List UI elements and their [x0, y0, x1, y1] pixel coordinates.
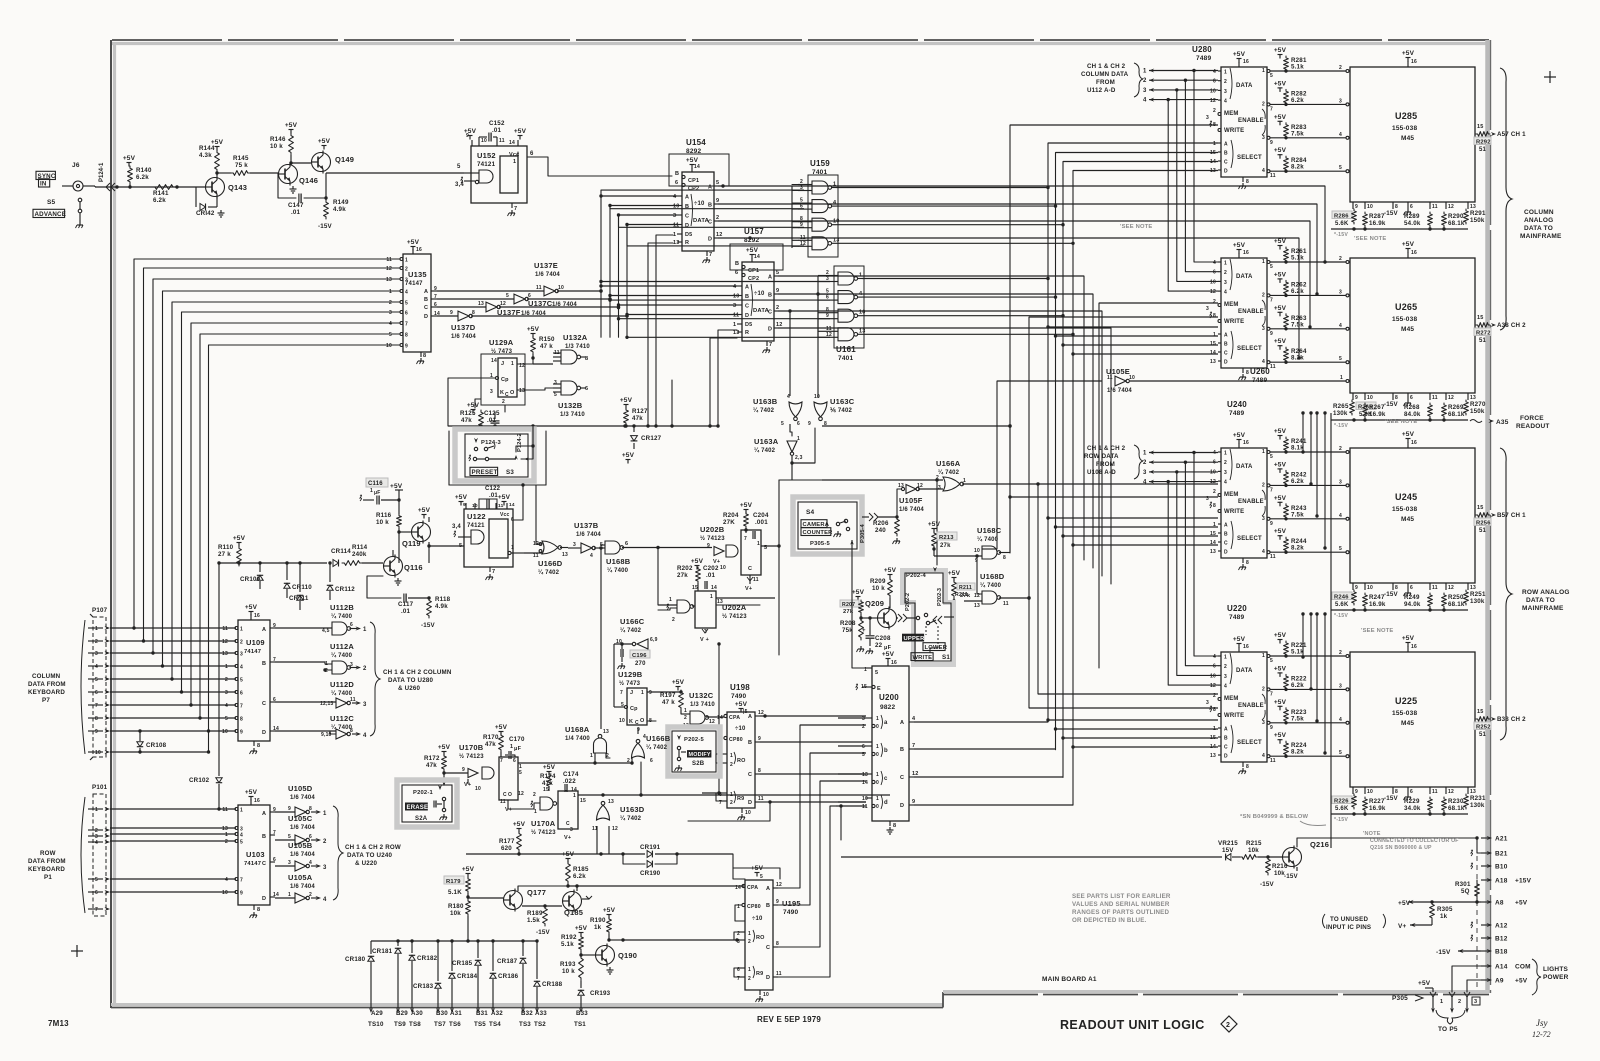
- wire Q149 emitter to U152 pin 5: [326, 164, 464, 173]
- svg-text:9822: 9822: [880, 704, 895, 711]
- wire U220 output 1 to U225: [1262, 650, 1349, 664]
- svg-text:1/6 7404: 1/6 7404: [290, 825, 315, 831]
- resistor R243 7.5k: [1274, 495, 1307, 519]
- svg-text:1: 1: [1224, 261, 1227, 267]
- svg-text:CR193: CR193: [590, 990, 611, 997]
- svg-text:÷10: ÷10: [754, 291, 765, 297]
- svg-text:+5V: +5V: [245, 789, 258, 796]
- resistor R118 4.9k: [421, 596, 451, 629]
- svg-text:K: K: [629, 719, 633, 725]
- svg-text:5: 5: [519, 770, 522, 776]
- resistor R179 5.1K boxed: [444, 866, 475, 896]
- svg-text:12: 12: [912, 771, 919, 777]
- svg-text:TS9: TS9: [394, 1021, 406, 1028]
- svg-text:10: 10: [619, 718, 625, 724]
- svg-text:7: 7: [1270, 297, 1273, 303]
- switch S2B MODIFY assembly: [668, 727, 720, 776]
- svg-text:CR186: CR186: [498, 973, 519, 980]
- wire U135 A data line: [437, 289, 603, 292]
- svg-text:V+: V+: [505, 807, 512, 813]
- text SEE NOTE markers: [1354, 236, 1387, 242]
- svg-text:U129A: U129A: [489, 338, 514, 347]
- IC U240 7489 memory: [1206, 400, 1267, 570]
- wire U280 output 3 to U285: [1262, 132, 1349, 146]
- svg-text:FORCE: FORCE: [1520, 415, 1544, 422]
- svg-text:14: 14: [754, 254, 760, 260]
- svg-text:KEYBOARD: KEYBOARD: [28, 689, 65, 696]
- svg-text:620: 620: [501, 845, 512, 852]
- svg-text:a: a: [884, 720, 888, 726]
- svg-text:15: 15: [580, 798, 586, 804]
- svg-text:DATA FROM: DATA FROM: [28, 681, 66, 688]
- svg-text:12: 12: [1448, 395, 1454, 401]
- svg-text:M45: M45: [1401, 516, 1414, 523]
- svg-text:CRI42: CRI42: [196, 210, 215, 217]
- svg-text:51: 51: [1479, 147, 1487, 153]
- svg-text:+5V: +5V: [467, 402, 480, 409]
- wire U240 output 1 to U245: [1262, 446, 1349, 460]
- svg-text:11: 11: [222, 807, 228, 813]
- svg-text:10k: 10k: [450, 910, 461, 917]
- wire U280 output 4 to U285: [1262, 165, 1349, 179]
- svg-text:8: 8: [776, 941, 779, 947]
- svg-text:Q190: Q190: [618, 951, 637, 960]
- svg-text:1: 1: [1224, 451, 1227, 457]
- resistor R141 6.2k: [152, 185, 176, 204]
- svg-text:4.9k: 4.9k: [333, 206, 346, 213]
- svg-text:U163C: U163C: [830, 397, 855, 406]
- one-shot U202A 1/2 74123: [667, 591, 747, 643]
- wire U166A input 2 from left: [822, 479, 943, 481]
- svg-text:MEM: MEM: [1224, 492, 1239, 498]
- svg-text:+5V: +5V: [740, 502, 753, 509]
- svg-text:3: 3: [1224, 89, 1227, 95]
- svg-text:13: 13: [603, 729, 609, 735]
- IC U260 7489 memory: [1206, 242, 1270, 384]
- svg-text:15: 15: [1477, 124, 1484, 130]
- svg-text:1: 1: [323, 811, 327, 817]
- svg-text:-15V: -15V: [1436, 949, 1451, 956]
- svg-text:1: 1: [511, 545, 514, 551]
- svg-text:5: 5: [225, 716, 228, 722]
- svg-text:R256: R256: [1476, 521, 1491, 527]
- resistor R241 8.1k: [1274, 428, 1307, 452]
- svg-text:51: 51: [1479, 732, 1487, 738]
- text to unused input ic pins: [1323, 914, 1433, 931]
- svg-text:B: B: [768, 293, 772, 299]
- wire U200 outputs right to select columns: [914, 722, 1073, 805]
- svg-text:1: 1: [748, 967, 751, 973]
- svg-text:V +: V +: [700, 637, 709, 643]
- svg-text:11: 11: [1270, 173, 1276, 179]
- svg-text:13: 13: [608, 799, 614, 805]
- svg-text:3: 3: [1339, 289, 1342, 295]
- svg-text:68.1k: 68.1k: [1448, 805, 1465, 812]
- wire S4 enclosure to P202-4: [779, 478, 939, 655]
- svg-text:P101: P101: [92, 784, 108, 791]
- svg-text:+5V: +5V: [1402, 241, 1415, 248]
- svg-text:+5V: +5V: [948, 570, 961, 577]
- resistor R292 51: [1474, 137, 1491, 153]
- resistor R216 10k: [1260, 857, 1288, 888]
- svg-text:R170: R170: [483, 734, 499, 741]
- svg-text:R140: R140: [136, 167, 152, 174]
- connector pin A18: [1481, 878, 1532, 885]
- svg-text:WRITE: WRITE: [1224, 319, 1244, 325]
- svg-text:8: 8: [1246, 764, 1249, 770]
- resistor R192 5.1k: [561, 925, 588, 955]
- svg-text:U157: U157: [744, 227, 764, 236]
- U245 bottom pin stubs: [1353, 583, 1476, 598]
- svg-text:22: 22: [875, 642, 883, 649]
- svg-text:B31: B31: [476, 1010, 488, 1017]
- svg-text:R125: R125: [460, 410, 476, 417]
- inverter U105D 1/6 7404: [275, 784, 327, 817]
- wire R116 to Q119 base: [397, 528, 411, 563]
- svg-text:SELECT: SELECT: [1237, 155, 1262, 161]
- svg-text:+5V: +5V: [1398, 900, 1411, 907]
- svg-text:13: 13: [478, 301, 484, 307]
- svg-text:÷10: ÷10: [752, 916, 763, 922]
- svg-text:54.0k: 54.0k: [1404, 220, 1421, 227]
- connector pin B18: [1481, 949, 1508, 956]
- svg-text:75 k: 75 k: [235, 162, 248, 169]
- svg-text:R209: R209: [870, 578, 886, 585]
- svg-text:A38 CH 2: A38 CH 2: [1497, 322, 1526, 329]
- svg-text:-15V: -15V: [1384, 210, 1399, 217]
- resistor R189 1.5k: [527, 906, 551, 936]
- resistor R149 4.9k: [324, 173, 349, 219]
- wire U220 output 4 to U225: [1262, 750, 1349, 764]
- svg-text:CR182: CR182: [417, 955, 438, 962]
- svg-text:10: 10: [862, 796, 868, 802]
- svg-text:D: D: [1224, 169, 1228, 175]
- wire Q177 emitter to Q185 base: [522, 904, 562, 907]
- svg-text:4: 4: [1213, 654, 1216, 660]
- svg-text:2: 2: [240, 640, 243, 646]
- svg-text:+5V: +5V: [1274, 147, 1287, 154]
- svg-text:2: 2: [1213, 299, 1216, 305]
- svg-text:COLUMN: COLUMN: [32, 673, 61, 680]
- svg-text:R193: R193: [560, 961, 576, 968]
- switch S1 P202 assembly: [897, 567, 954, 665]
- diode CR142: [196, 187, 217, 217]
- svg-text:P124-3: P124-3: [481, 440, 501, 446]
- svg-text:U132C: U132C: [689, 691, 714, 700]
- svg-text:C: C: [503, 792, 507, 798]
- svg-text:+5V: +5V: [1274, 665, 1287, 672]
- svg-text:6.2k: 6.2k: [153, 197, 166, 204]
- svg-text:7M13: 7M13: [48, 1019, 69, 1028]
- svg-text:5.1k: 5.1k: [1291, 64, 1304, 71]
- svg-text:U280: U280: [1192, 45, 1212, 54]
- wire U129B outputs: [647, 690, 683, 721]
- svg-text:2: 2: [776, 305, 779, 311]
- svg-text:14: 14: [694, 164, 700, 170]
- svg-text:150k: 150k: [1470, 217, 1485, 224]
- capacitor C208 22uF: [862, 616, 892, 654]
- svg-text:14: 14: [509, 140, 515, 146]
- svg-text:1: 1: [641, 690, 644, 696]
- resistor R127 47k: [620, 397, 648, 428]
- resistor R229 34.0k: [1404, 797, 1432, 812]
- svg-text:6: 6: [309, 834, 312, 840]
- svg-text:U200: U200: [879, 693, 899, 702]
- svg-text:U109: U109: [246, 638, 265, 647]
- inverter U137F 1/6 7404: [478, 301, 546, 317]
- resistor R267 16.9k: [1363, 403, 1386, 418]
- svg-text:8: 8: [405, 333, 408, 339]
- svg-text:R268: R268: [1404, 404, 1420, 411]
- wire Q146-C147 loop: [278, 173, 328, 200]
- svg-text:27k: 27k: [960, 593, 971, 599]
- wire U166C to U129B: [614, 644, 632, 709]
- resistor R180 10k: [448, 893, 504, 941]
- connector pin A12: [1471, 922, 1508, 929]
- svg-text:U112 A-D: U112 A-D: [1087, 87, 1116, 94]
- svg-text:A: A: [424, 289, 428, 295]
- svg-text:14: 14: [1210, 540, 1216, 546]
- svg-text:3: 3: [1262, 516, 1265, 522]
- svg-text:6: 6: [405, 311, 408, 317]
- svg-text:8.1k: 8.1k: [1291, 445, 1304, 452]
- svg-text:1: 1: [1224, 655, 1227, 661]
- svg-text:8: 8: [350, 728, 353, 734]
- wire row data input 4 to U240: [1143, 480, 1218, 486]
- svg-text:270: 270: [635, 661, 646, 667]
- NAND U132B 1/3 7410: [553, 380, 588, 418]
- IC U152 74121: [455, 128, 527, 203]
- svg-text:10k: 10k: [1248, 847, 1259, 854]
- svg-text:9: 9: [95, 729, 98, 735]
- resistor R215 10k: [1240, 840, 1283, 859]
- svg-text:27K: 27K: [723, 519, 735, 526]
- svg-text:'NOTE: 'NOTE: [1363, 831, 1381, 837]
- svg-text:155-038: 155-038: [1392, 506, 1417, 513]
- svg-text:5: 5: [621, 702, 624, 708]
- svg-text:4: 4: [590, 553, 593, 559]
- svg-text:S3: S3: [506, 469, 514, 476]
- svg-text:μF: μF: [514, 746, 522, 752]
- wire U202B output to S4 vertical: [761, 544, 781, 547]
- wire A14/A9 to P305: [1452, 966, 1481, 992]
- svg-text:9: 9: [1270, 521, 1273, 527]
- wire mem column x=1038: [1036, 482, 1218, 694]
- diode CR185: [452, 941, 481, 1013]
- svg-text:R267: R267: [1369, 404, 1385, 411]
- svg-text:6.2k: 6.2k: [573, 873, 586, 880]
- wire U240 output 4 to U245: [1262, 546, 1349, 560]
- svg-text:7: 7: [405, 322, 408, 328]
- svg-text:8.2k: 8.2k: [1291, 749, 1304, 756]
- svg-text:U202B: U202B: [700, 525, 725, 534]
- svg-text:C: C: [766, 945, 770, 951]
- svg-text:4: 4: [405, 290, 408, 296]
- resistor R204 27k capacitor C204 .001: [723, 502, 769, 539]
- svg-text:CR187: CR187: [497, 958, 518, 965]
- svg-text:B33: B33: [576, 1010, 588, 1017]
- svg-text:C: C: [424, 305, 428, 311]
- svg-text:2: 2: [1226, 1022, 1230, 1029]
- svg-text:4.3k: 4.3k: [199, 152, 212, 159]
- wire U154 output D to U265 chain: [718, 236, 1301, 359]
- svg-text:9: 9: [776, 288, 779, 294]
- one-shot U170B 1/2 74123: [459, 743, 524, 813]
- svg-text:ANALOG: ANALOG: [1524, 217, 1553, 224]
- svg-text:*-15V: *-15V: [1334, 613, 1348, 619]
- wire write column x=1029: [1027, 317, 1218, 708]
- svg-text:1: 1: [1143, 451, 1147, 457]
- svg-text:U202A: U202A: [722, 603, 747, 612]
- svg-text:+5V: +5V: [746, 247, 759, 254]
- svg-text:16: 16: [416, 247, 422, 253]
- svg-text:+5V: +5V: [928, 521, 941, 528]
- resistor R256 51: [1474, 518, 1491, 534]
- wire from PRESET right side: [516, 426, 535, 461]
- svg-text:ADVANCE: ADVANCE: [35, 211, 67, 218]
- wire Q216 collector to B21: [1297, 838, 1477, 847]
- svg-text:8: 8: [1213, 503, 1216, 509]
- svg-text:R287: R287: [1369, 213, 1385, 220]
- wire y=854 junction row: [466, 852, 625, 855]
- svg-text:5: 5: [506, 293, 509, 299]
- svg-text:U137B: U137B: [574, 521, 599, 530]
- svg-text:R252: R252: [1476, 725, 1491, 731]
- svg-text:1: 1: [757, 541, 760, 547]
- svg-text:7: 7: [1270, 106, 1273, 112]
- svg-text:C: C: [748, 772, 752, 778]
- IC U122 74121 one-shot: [452, 494, 524, 580]
- IC U265 155-038 M45 character generator: [1350, 241, 1475, 393]
- svg-text:R213: R213: [939, 535, 954, 541]
- svg-text:RANGES OF PARTS OUTLINED: RANGES OF PARTS OUTLINED: [1072, 909, 1169, 916]
- svg-text:C122: C122: [485, 486, 501, 492]
- sheet number diamond 2: [1221, 1016, 1237, 1032]
- svg-text:U132B: U132B: [558, 401, 583, 410]
- svg-text:2: 2: [1339, 446, 1342, 452]
- IC U220 7489 memory: [1206, 604, 1267, 774]
- svg-text:7401: 7401: [812, 169, 827, 176]
- svg-text:3: 3: [1224, 674, 1227, 680]
- svg-text:1/6 7404: 1/6 7404: [451, 334, 476, 340]
- wire U170B output 5 long to U168A/U166B: [518, 761, 632, 764]
- svg-text:9: 9: [912, 799, 915, 805]
- resistor R227 16.9k: [1363, 797, 1386, 812]
- svg-text:½ 74123: ½ 74123: [722, 613, 747, 620]
- IC U198 7490 counter: [717, 683, 764, 820]
- svg-text:CP1: CP1: [748, 268, 759, 274]
- svg-text:D: D: [424, 314, 428, 320]
- svg-text:A: A: [685, 195, 689, 201]
- connector P305: [1392, 992, 1480, 1033]
- svg-text:5.1k: 5.1k: [1291, 649, 1304, 656]
- wire U122 out to U166D: [524, 543, 542, 553]
- svg-text:10: 10: [222, 729, 228, 735]
- wire mem column x=1099: [1099, 303, 1218, 668]
- svg-text:B: B: [262, 834, 266, 840]
- svg-text:MAINFRAME: MAINFRAME: [1520, 233, 1562, 240]
- svg-text:+5V: +5V: [620, 397, 633, 404]
- inverter U112D 1/4 7400: [275, 680, 367, 708]
- svg-text:R127: R127: [632, 408, 648, 415]
- wire bus verticals to U154/U157 data pins: [599, 190, 830, 339]
- svg-text:13: 13: [222, 651, 228, 657]
- svg-text:7: 7: [620, 690, 623, 696]
- connector P124-1: [99, 162, 115, 191]
- wire column data input 3 to U280: [1143, 88, 1218, 94]
- wire U240 output 3 to U245: [1262, 513, 1349, 527]
- svg-text:1: 1: [1143, 69, 1147, 75]
- svg-text:SEE PARTS LIST FOR EARLIER: SEE PARTS LIST FOR EARLIER: [1072, 893, 1171, 900]
- IC U135 74147 priority encoder: [386, 239, 431, 364]
- svg-text:DATA: DATA: [1236, 274, 1253, 280]
- svg-text:C202: C202: [703, 565, 719, 572]
- svg-text:1: 1: [833, 182, 836, 188]
- svg-text:+5V: +5V: [407, 239, 420, 246]
- svg-text:DATA: DATA: [1236, 464, 1253, 470]
- svg-text:1: 1: [240, 627, 243, 633]
- svg-text:2: 2: [225, 677, 228, 683]
- svg-text:CR183: CR183: [413, 983, 434, 990]
- svg-text:Q119: Q119: [402, 539, 421, 548]
- svg-text:3: 3: [1262, 720, 1265, 726]
- svg-text:5: 5: [240, 840, 243, 846]
- svg-text:P107: P107: [92, 607, 108, 614]
- svg-text:2: 2: [684, 715, 687, 721]
- svg-text:.01: .01: [706, 572, 716, 579]
- svg-text:2: 2: [1339, 65, 1342, 71]
- resistor R206 240: [873, 517, 900, 544]
- transistor Q146: [279, 163, 319, 194]
- svg-text:CH 1 & CH 2 ROW: CH 1 & CH 2 ROW: [345, 844, 401, 851]
- svg-text:R206: R206: [873, 520, 889, 527]
- svg-text:ENABLE: ENABLE: [1238, 309, 1264, 315]
- svg-text:CPA: CPA: [729, 715, 740, 721]
- resistor R284 8.2k: [1274, 147, 1307, 171]
- resistor R170 47k capacitor C170 1uF: [483, 724, 525, 759]
- svg-text:¼ 7400: ¼ 7400: [331, 652, 353, 659]
- svg-text:C196: C196: [632, 653, 647, 659]
- svg-text:J: J: [630, 690, 633, 696]
- svg-text:2: 2: [627, 758, 630, 764]
- wire U195 R0 jumpers: [734, 932, 739, 977]
- svg-text:7.5k: 7.5k: [1291, 715, 1304, 722]
- svg-text:9: 9: [1355, 585, 1358, 591]
- capacitor C152 .01: [479, 120, 505, 142]
- svg-text:¼ 7402: ¼ 7402: [646, 744, 668, 751]
- svg-text:47k: 47k: [485, 741, 496, 748]
- svg-text:D5: D5: [685, 232, 692, 238]
- wire U163B/U163A vertical: [790, 424, 795, 436]
- svg-text:¼ 7402: ¼ 7402: [620, 815, 642, 822]
- svg-text:7489: 7489: [1229, 614, 1244, 621]
- svg-text:0: 0: [876, 724, 879, 730]
- svg-text:D: D: [748, 800, 752, 806]
- connector pin A8: [1481, 900, 1528, 907]
- diode CR180: [345, 941, 374, 1013]
- resistor R301 50: [1455, 880, 1479, 904]
- svg-text:Q149: Q149: [335, 155, 354, 164]
- svg-text:TS3: TS3: [519, 1021, 531, 1028]
- svg-text:Vcc: Vcc: [500, 512, 510, 518]
- svg-text:R249: R249: [1404, 594, 1420, 601]
- svg-text:7490: 7490: [731, 693, 746, 700]
- svg-text:6: 6: [625, 541, 628, 547]
- wire preset junction: [448, 424, 627, 431]
- svg-text:REV E 5EP 1979: REV E 5EP 1979: [757, 1015, 821, 1024]
- svg-text:1k: 1k: [594, 924, 602, 931]
- svg-text:C: C: [685, 214, 689, 220]
